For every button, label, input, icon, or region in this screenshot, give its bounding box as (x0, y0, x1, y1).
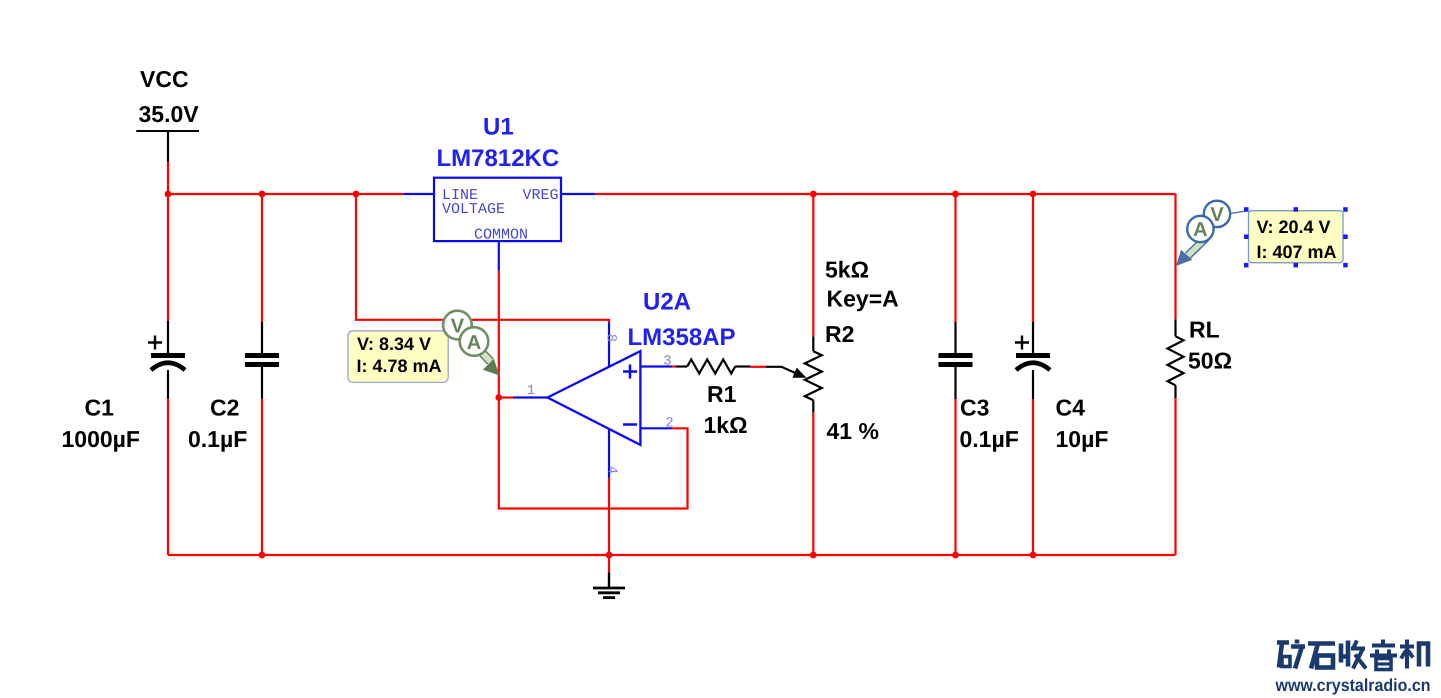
svg-text:1: 1 (527, 383, 535, 399)
resistor RL 50 (1168, 316, 1233, 398)
svg-text:R2: R2 (825, 321, 854, 347)
wire opamp pin1 (499, 396, 513, 398)
svg-text:V: 20.4 V: V: 20.4 V (1257, 217, 1331, 237)
U1 pin stub left (404, 193, 434, 195)
svg-text:R1: R1 (707, 381, 737, 407)
junction R2 top (810, 191, 817, 198)
junction C4 bottom (1030, 552, 1037, 559)
junction C2 top (259, 191, 266, 198)
wire RL bottom (1174, 398, 1176, 555)
potentiometer R2 wiper arrow (766, 367, 807, 378)
svg-text:10µF: 10µF (1056, 426, 1109, 452)
wire top bus (168, 193, 1176, 195)
junction VCC/C1 top (165, 191, 172, 198)
svg-text:C1: C1 (85, 395, 115, 421)
svg-text:Key=A: Key=A (827, 285, 899, 311)
wire C4 branch (1032, 194, 1034, 555)
junction C2 bottom (259, 552, 266, 559)
svg-text:2: 2 (665, 416, 673, 432)
svg-text:U1: U1 (483, 113, 514, 140)
wire RL top (1174, 194, 1176, 319)
ground (593, 573, 625, 598)
svg-text:VOLTAGE: VOLTAGE (442, 201, 505, 218)
junction opamp output node (495, 394, 502, 401)
capacitor C1 (62, 321, 186, 452)
wire R1 to wiper (750, 366, 766, 368)
probe 1 arrow (479, 350, 500, 376)
junction R2 bottom (810, 552, 817, 559)
op-amp U2A LM358AP (513, 288, 736, 478)
VCC source V1 (136, 66, 199, 162)
svg-text:0.1µF: 0.1µF (960, 426, 1019, 452)
wire VCC to top bus (167, 162, 169, 195)
junction opamp supply branch (353, 191, 360, 198)
wire U1 common down (498, 271, 500, 398)
U1 pin stub common (498, 241, 500, 271)
junction C3 bottom (952, 552, 959, 559)
svg-text:1kΩ: 1kΩ (704, 412, 748, 438)
svg-text:1000µF: 1000µF (62, 426, 140, 452)
svg-text:C4: C4 (1056, 395, 1086, 421)
wire ground stub (608, 555, 610, 573)
svg-text:C2: C2 (210, 395, 239, 421)
wire opamp supply branch (356, 194, 609, 322)
svg-text:U2A: U2A (643, 288, 691, 315)
svg-text:COMMON: COMMON (474, 227, 528, 244)
wire R2 bottom (812, 412, 814, 555)
probe 1 V circle (443, 311, 472, 340)
voltage regulator U1 LM7812KC (434, 113, 561, 243)
svg-text:35.0V: 35.0V (139, 101, 200, 127)
svg-text:C3: C3 (960, 395, 989, 421)
wire pin3 to R1 (672, 365, 676, 367)
wire opamp pin4 to ground bus (608, 478, 610, 555)
svg-text:A: A (1193, 219, 1207, 241)
svg-text:LM7812KC: LM7812KC (437, 145, 560, 172)
potentiometer R2 5k (805, 256, 899, 444)
svg-text:V: 8.34 V: V: 8.34 V (357, 334, 431, 354)
svg-text:8: 8 (603, 334, 619, 342)
probe 1 measurement box (348, 331, 448, 383)
junction C4 top (1030, 191, 1037, 198)
svg-text:A: A (467, 332, 481, 354)
U1 pin stub right (561, 193, 595, 195)
svg-text:VREG: VREG (522, 187, 558, 204)
probe 2 measurement box (1249, 211, 1344, 263)
svg-text:I: 407 mA: I: 407 mA (1257, 242, 1337, 262)
junction ground node (606, 552, 613, 559)
svg-text:LM358AP: LM358AP (628, 324, 736, 351)
wire C3 branch (954, 194, 956, 555)
svg-text:4: 4 (604, 466, 620, 474)
wire R2 top (812, 194, 814, 336)
probe 2 V circle (1204, 201, 1230, 227)
probe 2 arrow (1176, 238, 1207, 267)
probe 2 A circle (1187, 216, 1213, 242)
svg-text:RL: RL (1189, 316, 1220, 342)
probe 2 connector line (1230, 211, 1249, 214)
svg-text:3: 3 (663, 354, 671, 370)
svg-text:5kΩ: 5kΩ (825, 256, 869, 282)
probe 1 A circle (460, 327, 489, 356)
svg-text:VCC: VCC (140, 66, 189, 92)
capacitor C3 (939, 322, 1019, 452)
svg-text:I: 4.78 mA: I: 4.78 mA (357, 356, 442, 376)
resistor R1 1k (676, 360, 750, 439)
svg-text:0.1µF: 0.1µF (188, 426, 247, 452)
capacitor C4 (1015, 322, 1108, 452)
svg-text:50Ω: 50Ω (1188, 348, 1232, 374)
watermark logo text (1277, 640, 1428, 670)
capacitor C2 (188, 322, 279, 452)
wire feedback loop (499, 398, 688, 509)
wire C1 branch (167, 194, 169, 555)
svg-text:www.crystalradio.cn: www.crystalradio.cn (1275, 675, 1431, 695)
junction C3 top (952, 191, 959, 198)
probe 2 selection handles (1244, 207, 1348, 267)
wire C2 branch (261, 194, 263, 555)
wire bottom ground bus (168, 554, 1176, 556)
svg-text:41 %: 41 % (827, 418, 879, 444)
